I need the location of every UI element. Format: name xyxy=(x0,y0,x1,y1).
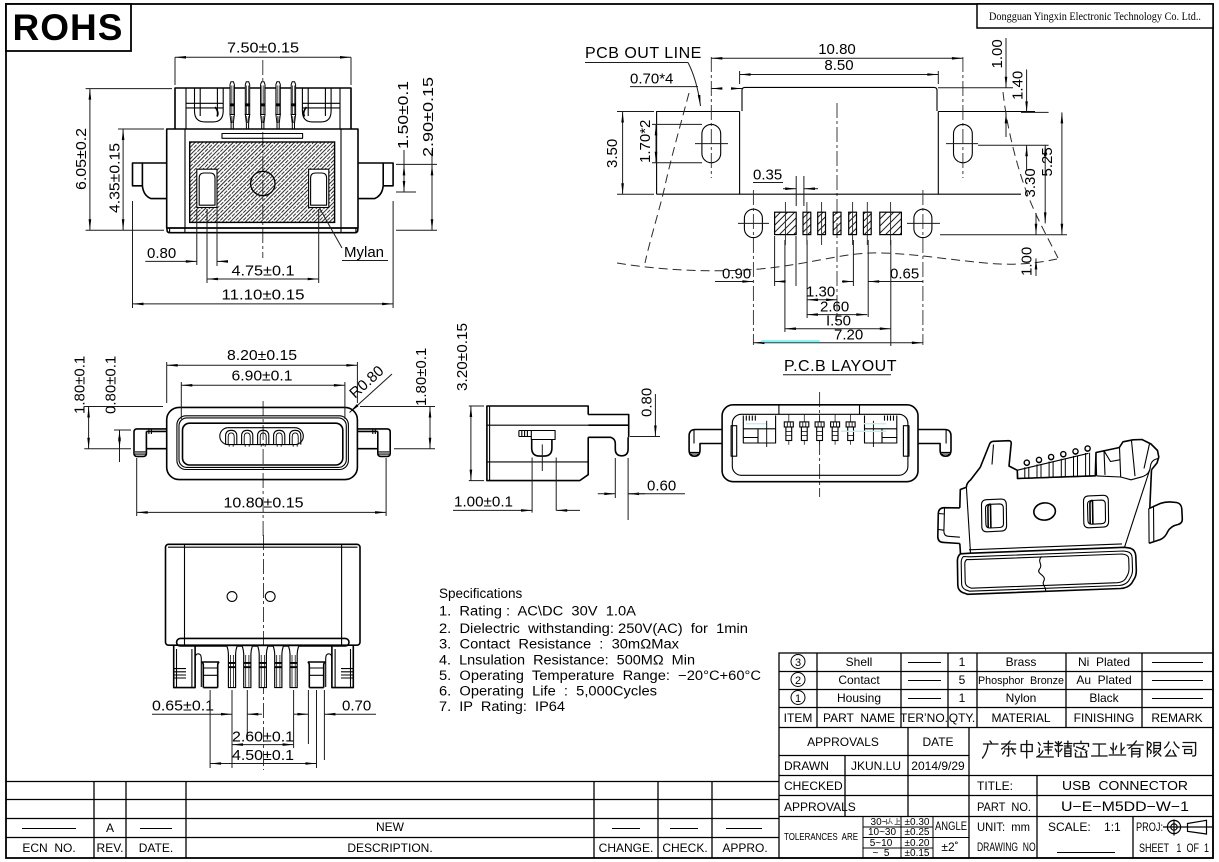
svg-text:Mylan: Mylan xyxy=(344,244,384,261)
mylan label xyxy=(320,209,388,261)
svg-text:10.80: 10.80 xyxy=(818,41,856,58)
view5 rear tab xyxy=(779,405,860,414)
iso front face lip lines xyxy=(961,551,1132,591)
view1 center circle xyxy=(251,171,275,195)
svg-text:~ 5: ~ 5 xyxy=(873,848,890,859)
dim 1.00±0.1 xyxy=(453,458,580,513)
view5 cyan artifacts xyxy=(746,424,886,432)
view7 left outer leg xyxy=(174,646,195,688)
dim 1.00 bottom right xyxy=(940,213,1067,276)
svg-text:ROHS: ROHS xyxy=(13,7,124,48)
pcb right slot oval xyxy=(954,124,973,162)
view4 contact pocket xyxy=(531,431,555,440)
specifications text xyxy=(439,586,761,714)
company name box xyxy=(977,4,1213,28)
ROHS logo box xyxy=(6,4,131,51)
view7 left slot xyxy=(195,654,201,687)
view7 right slot xyxy=(326,654,332,687)
svg-text:TOLERANCES ARE: TOLERANCES ARE xyxy=(784,831,858,843)
svg-text:4.75±0.1: 4.75±0.1 xyxy=(232,263,295,280)
pcb main outline xyxy=(742,87,937,111)
dim 2.60 xyxy=(807,314,867,316)
svg-text:3.50: 3.50 xyxy=(604,139,621,168)
dim 8.50 xyxy=(740,71,939,84)
pads row xyxy=(775,202,902,245)
svg-text:3.20±0.15: 3.20±0.15 xyxy=(454,323,471,391)
pcb left slot oval xyxy=(702,124,721,162)
svg-text:3: 3 xyxy=(795,657,801,669)
dim 1.80±0.1 left xyxy=(84,407,163,449)
dim 10.80±0.15 xyxy=(137,458,386,516)
dim 1.80±0.1 right xyxy=(360,407,435,449)
revision table (bottom strip) xyxy=(6,782,779,859)
svg-text:A: A xyxy=(106,821,114,835)
view7 screw holes xyxy=(227,592,237,602)
svg-text:Ni Plated: Ni Plated xyxy=(1078,655,1130,669)
dim 3.50 xyxy=(617,112,654,195)
svg-text:3.30: 3.30 xyxy=(1022,168,1039,197)
svg-text:11.10±0.15: 11.10±0.15 xyxy=(222,287,305,304)
view4 top plate protrusion xyxy=(588,415,629,438)
svg-text:1.00: 1.00 xyxy=(1019,247,1036,276)
svg-text:ECN NO.: ECN NO. xyxy=(22,841,75,855)
svg-text:UNIT: mm: UNIT: mm xyxy=(977,820,1030,834)
svg-text:1.00±0.1: 1.00±0.1 xyxy=(454,494,513,511)
svg-text:±0.15: ±0.15 xyxy=(905,848,930,859)
dim 5.25 xyxy=(1061,112,1063,234)
svg-text:4.35±0.15: 4.35±0.15 xyxy=(107,143,124,213)
dim 10.80 xyxy=(711,57,963,59)
dim 1.40 xyxy=(1026,70,1028,171)
svg-text:2014/9/29: 2014/9/29 xyxy=(911,759,965,773)
svg-text:0.70*4: 0.70*4 xyxy=(630,71,673,88)
svg-text:±2˚: ±2˚ xyxy=(941,840,958,854)
view5 inner shell xyxy=(732,414,908,475)
svg-text:PART NO.: PART NO. xyxy=(977,800,1031,814)
view1 body outline xyxy=(167,129,358,228)
svg-text:QTY.: QTY. xyxy=(949,711,975,725)
dim 8.20±0.15 xyxy=(167,362,358,403)
view7 pins xyxy=(227,646,299,687)
iso left leg xyxy=(938,508,960,544)
dim 0.65 xyxy=(842,281,853,283)
break line right xyxy=(1003,92,1058,258)
dim 6.05±0.2 xyxy=(86,89,172,231)
svg-text:2: 2 xyxy=(795,675,801,687)
dim 4.75±0.1 xyxy=(207,209,319,283)
pcb wings xyxy=(657,112,1035,195)
ter'no dashes xyxy=(908,663,941,699)
iso top face outline xyxy=(980,441,1119,479)
svg-text:5: 5 xyxy=(959,673,966,687)
svg-text:7.50±0.15: 7.50±0.15 xyxy=(227,40,299,57)
dim 3.30 xyxy=(1044,145,1046,223)
svg-text:CHANGE.: CHANGE. xyxy=(599,841,654,855)
view1 cap outline xyxy=(175,88,351,129)
svg-text:DRAWN: DRAWN xyxy=(784,759,829,773)
view4 leg xyxy=(588,437,628,456)
svg-text:1: 1 xyxy=(959,655,966,669)
iso pins strip xyxy=(1017,453,1096,479)
projection symbol xyxy=(1163,820,1212,836)
svg-text:6.90±0.1: 6.90±0.1 xyxy=(232,368,293,385)
svg-text:4.50±0.1: 4.50±0.1 xyxy=(232,747,294,764)
svg-text:0.60: 0.60 xyxy=(647,478,676,495)
svg-text:DATE.: DATE. xyxy=(139,841,173,855)
view5 outer shell xyxy=(722,405,918,482)
iso top face hole left xyxy=(981,499,1006,532)
svg-text:1.00: 1.00 xyxy=(989,39,1006,68)
svg-text:TITLE:: TITLE: xyxy=(977,779,1013,793)
dim 0.65±0.1 xyxy=(152,690,262,768)
svg-text:1.80±0.1: 1.80±0.1 xyxy=(72,356,89,414)
svg-text:REMARK: REMARK xyxy=(1151,711,1202,725)
iso right wing xyxy=(1149,470,1182,543)
svg-text:Au Plated: Au Plated xyxy=(1076,673,1131,687)
view5 right leg xyxy=(918,430,951,457)
view4 body xyxy=(487,406,588,481)
view3 left leg xyxy=(134,429,167,457)
svg-text:1. Rating : AC\DC 30V 1.0A: 1. Rating : AC\DC 30V 1.0A xyxy=(439,604,636,619)
view7 body xyxy=(166,544,361,645)
svg-text:0.80±0.1: 0.80±0.1 xyxy=(103,356,120,414)
svg-text:Dongguan Yingxin Electronic Te: Dongguan Yingxin Electronic Technology C… xyxy=(989,11,1201,23)
svg-text:ANGLE: ANGLE xyxy=(935,821,967,833)
view1 pins xyxy=(230,82,296,129)
iso top-front edge xyxy=(966,471,1149,554)
view7 bottom flange xyxy=(177,638,349,646)
svg-text:ITEM: ITEM xyxy=(784,711,813,725)
svg-text:CHECK.: CHECK. xyxy=(662,841,707,855)
dim 1.70*2 xyxy=(652,124,702,162)
svg-text:FINISHING: FINISHING xyxy=(1074,711,1135,725)
view1 left leg xyxy=(133,163,167,199)
view5 left leg xyxy=(689,430,722,457)
view1 mylar window left xyxy=(197,169,217,207)
iso rear right block detail xyxy=(1097,448,1159,480)
view3 centerline xyxy=(262,401,264,539)
dim 2.90±0.15 xyxy=(396,150,437,230)
remark dashes xyxy=(1152,663,1203,699)
svg-text:APPRO.: APPRO. xyxy=(722,841,767,855)
view3 body outer shell xyxy=(167,407,358,479)
iso front face outer xyxy=(957,547,1136,594)
dim 11.10±0.15 xyxy=(133,201,394,308)
svg-text:7. IP Rating: IP64: 7. IP Rating: IP64 xyxy=(439,699,566,714)
svg-text:0.35: 0.35 xyxy=(753,167,782,184)
iso pins xyxy=(1024,446,1090,478)
company CJK name (drawn) xyxy=(983,741,999,758)
svg-text:4. Lnsulation Resistance: 5: 4. Lnsulation Resistance: 500MΩ Min xyxy=(439,653,695,668)
view3 tongue xyxy=(220,428,303,445)
view1 centerline xyxy=(262,60,264,258)
svg-text:Specifications: Specifications xyxy=(439,586,523,601)
dim 4.50±0.1 xyxy=(210,690,316,768)
svg-text:REV.: REV. xyxy=(97,841,124,855)
svg-text:1: 1 xyxy=(959,691,966,705)
view1 top strip xyxy=(222,134,303,139)
svg-text:Contact: Contact xyxy=(838,673,880,687)
svg-text:DESCRIPTION.: DESCRIPTION. xyxy=(347,841,432,855)
iso top face hole right xyxy=(1083,495,1108,528)
view1 cap slot left xyxy=(195,88,224,122)
view5 pins xyxy=(784,415,855,445)
svg-text:PCB OUT LINE: PCB OUT LINE xyxy=(585,45,702,62)
svg-text:Phosphor Bronze: Phosphor Bronze xyxy=(978,675,1064,687)
iso left side edge xyxy=(960,487,967,554)
company name (drawn strokes, CJK approximation) xyxy=(983,741,1196,759)
dim I.50 xyxy=(785,328,891,330)
svg-text:7.20: 7.20 xyxy=(834,327,863,344)
svg-text:U−E−M5DD−W−1: U−E−M5DD−W−1 xyxy=(1061,799,1189,814)
svg-text:1.80±0.1: 1.80±0.1 xyxy=(413,348,430,406)
view7 centerline xyxy=(263,535,265,770)
svg-text:2.60±0.1: 2.60±0.1 xyxy=(232,729,294,746)
dim 1.00 top right xyxy=(938,38,1049,137)
svg-text:APPROVALS: APPROVALS xyxy=(807,735,879,749)
svg-text:6. Operating Life : 5,000C: 6. Operating Life : 5,000Cycles xyxy=(439,684,657,699)
svg-text:5.25: 5.25 xyxy=(1039,147,1056,176)
iso ellipse hole xyxy=(1033,502,1056,521)
pcb centerline xyxy=(836,103,838,322)
pad leader lines xyxy=(775,236,891,346)
svg-text:TERʼNO.: TERʼNO. xyxy=(900,711,948,725)
title block xyxy=(779,653,1213,859)
svg-text:10~30: 10~30 xyxy=(868,827,897,838)
svg-text:P.C.B LAYOUT: P.C.B LAYOUT xyxy=(784,358,897,375)
view7 right wide pin xyxy=(308,662,325,688)
svg-text:SHEET 1 OF 1: SHEET 1 OF 1 xyxy=(1139,841,1209,855)
dim 7.20 xyxy=(753,342,923,344)
view1 right leg xyxy=(358,163,393,199)
dim 0.80±0.1 xyxy=(114,430,131,462)
iso squiggle crack xyxy=(1039,557,1046,591)
break line bottom xyxy=(617,253,1057,271)
svg-text:10.80±0.15: 10.80±0.15 xyxy=(224,495,304,512)
dim 3.20±0.15 xyxy=(469,406,484,481)
view3 right leg xyxy=(357,429,390,457)
dim 7.50±0.15 xyxy=(175,57,351,85)
svg-text:Shell: Shell xyxy=(846,655,873,669)
dim 0.90 xyxy=(715,281,753,283)
svg-text:0.90: 0.90 xyxy=(722,266,751,283)
svg-text:8.50: 8.50 xyxy=(824,57,853,74)
view1 hatched block xyxy=(190,142,335,222)
dim 1.50±0.1 xyxy=(396,150,437,192)
dim 0.80 xyxy=(630,394,660,437)
svg-text:USB CONNECTOR: USB CONNECTOR xyxy=(1062,778,1188,793)
svg-text:2.90±0.15: 2.90±0.15 xyxy=(420,77,437,157)
view7 right outer leg xyxy=(332,646,353,688)
break line left xyxy=(645,93,689,263)
svg-text:PART NAME: PART NAME xyxy=(823,711,895,725)
view5 left block xyxy=(743,416,775,448)
svg-text:Housing: Housing xyxy=(837,691,881,705)
svg-text:APPROVALS: APPROVALS xyxy=(784,800,856,814)
dim 0.35 xyxy=(753,176,818,206)
svg-text:0.80: 0.80 xyxy=(147,245,176,262)
svg-text:1.50±0.1: 1.50±0.1 xyxy=(395,81,412,149)
svg-text:DRAWING NO.: DRAWING NO. xyxy=(977,840,1038,854)
view1 mylar window right xyxy=(309,169,329,207)
svg-text:1: 1 xyxy=(795,693,801,705)
view3 shell second wall xyxy=(177,416,349,470)
svg-text:0.65: 0.65 xyxy=(890,266,919,283)
svg-text:MATERIAL: MATERIAL xyxy=(991,711,1050,725)
drawing no dash xyxy=(1057,852,1115,854)
svg-text:NEW: NEW xyxy=(376,820,405,834)
svg-text:6.05±0.2: 6.05±0.2 xyxy=(73,128,90,190)
svg-text:Nylon: Nylon xyxy=(1006,691,1037,705)
dim 6.90±0.1 xyxy=(181,382,345,419)
cyan artifact xyxy=(762,340,820,342)
dim 1.30 xyxy=(807,299,837,301)
item circled numbers xyxy=(791,655,805,706)
svg-text:JKUN.LU: JKUN.LU xyxy=(851,759,901,773)
svg-text:PROJ:: PROJ: xyxy=(1136,820,1163,834)
svg-text:5. Operating Temperature Ra: 5. Operating Temperature Range: −20°C+60… xyxy=(439,668,761,683)
view5 right block xyxy=(865,416,897,448)
dim 2.60±0.1 xyxy=(232,690,294,748)
view1 cap slot right xyxy=(302,88,331,122)
svg-text:Black: Black xyxy=(1089,691,1119,705)
pad ovals xyxy=(744,209,762,237)
svg-text:0.65±0.1: 0.65±0.1 xyxy=(152,698,214,715)
view3 contacts xyxy=(226,430,301,446)
view4 serrated detail xyxy=(519,431,531,437)
dim 0.80 window xyxy=(145,209,225,266)
iso rear-left tab inner xyxy=(992,445,1017,471)
dim 0.70 xyxy=(294,690,376,768)
svg-text:2. Dielectric withstanding:: 2. Dielectric withstanding: 250V(AC) for… xyxy=(439,621,748,636)
svg-text:±0.25: ±0.25 xyxy=(905,827,930,838)
svg-text:3. Contact Resistance : 30: 3. Contact Resistance : 30mΩMax xyxy=(439,637,679,652)
view1 bottom strip xyxy=(167,228,358,233)
svg-text:DATE: DATE xyxy=(922,735,953,749)
svg-text:0.80: 0.80 xyxy=(639,388,656,417)
R0.80 leader xyxy=(350,374,393,413)
svg-text:0.70: 0.70 xyxy=(342,698,371,715)
svg-text:CHECKED: CHECKED xyxy=(784,779,843,793)
svg-text:1.70*2: 1.70*2 xyxy=(637,120,654,163)
view7 left wide pin xyxy=(202,662,219,688)
svg-text:SCALE: 1:1: SCALE: 1:1 xyxy=(1048,820,1121,834)
dim 0.60 xyxy=(598,458,685,520)
view3 cavity xyxy=(183,423,343,465)
svg-text:Brass: Brass xyxy=(1006,655,1037,669)
view5 centerline xyxy=(819,392,821,497)
svg-text:8.20±0.15: 8.20±0.15 xyxy=(227,347,297,364)
view5 side wall bars xyxy=(731,426,737,457)
svg-text:1.40: 1.40 xyxy=(1010,71,1027,100)
dim 4.35±0.15 xyxy=(118,129,164,230)
